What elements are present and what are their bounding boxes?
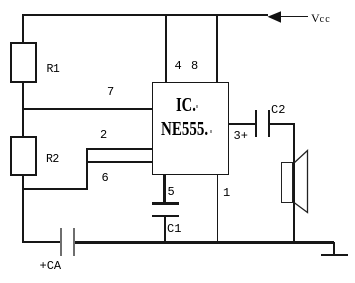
wire: pin 6 horizontal: [86, 161, 153, 163]
wire: pin 2 horizontal: [86, 148, 153, 150]
wire: left vertical, R2 to bottom rail: [22, 176, 24, 243]
wire: pin 3 output horizontal: [229, 123, 255, 125]
wire: pin 8 vertical: [216, 14, 218, 82]
wire: bottom rail left of CA: [22, 241, 60, 243]
wire: right vertical through speaker: [293, 123, 295, 243]
wire: pin 4 vertical: [165, 14, 167, 82]
wire: arrow to Vcc: [281, 16, 308, 18]
faint mark after IC: [196, 105, 198, 108]
label +CA: [40, 260, 62, 272]
capacitor C1 bottom plate: [152, 215, 179, 218]
capacitor C1 top plate: [152, 202, 179, 205]
label NE555: [161, 119, 208, 139]
wire: pin 1 vertical: [217, 175, 219, 243]
wire: branch horizontal y=188: [22, 188, 87, 190]
capacitor CA left plate: [60, 228, 62, 256]
ground bar: [321, 254, 348, 256]
wire: left vertical, top rail to R1: [22, 14, 24, 43]
label R1: [47, 64, 60, 76]
label Vcc: [311, 12, 331, 25]
label pin 1: [223, 187, 230, 199]
wire: top rail y=14 from left vertical to arrow tip: [22, 14, 268, 16]
speaker LS1 body: [281, 162, 293, 203]
op-amp-style IC box U1 NE555: [152, 82, 229, 175]
faint mark after NE555: [210, 130, 213, 133]
resistor R1: [10, 42, 37, 83]
wire: bottom rail right of CA: [75, 241, 334, 244]
wire: C2 to speaker vertical: [270, 123, 294, 125]
wire: pin 7 horizontal to IC: [22, 108, 152, 110]
label R2: [46, 154, 59, 166]
label IC: [176, 95, 196, 115]
ground: vertical stub: [333, 242, 335, 255]
label pin 7: [107, 86, 114, 98]
wire: C1 to bottom rail: [164, 217, 166, 243]
label C2: [271, 104, 285, 116]
label pin 8: [191, 60, 198, 72]
wire: pin 5 vertical: [163, 175, 166, 203]
capacitor C2 right plate: [268, 110, 270, 137]
label pin 3+: [234, 130, 248, 142]
resistor R2: [10, 136, 37, 176]
wire: left vertical, R1 to R2: [22, 83, 24, 137]
wire: branch vertical x=86: [86, 148, 88, 190]
label pin 2: [100, 129, 107, 141]
label pin 5: [168, 186, 175, 198]
label pin 6: [102, 172, 109, 184]
capacitor CA right plate: [73, 228, 75, 256]
label pin 4: [175, 60, 182, 72]
capacitor C2 left plate: [255, 110, 257, 137]
label C1: [167, 223, 181, 235]
